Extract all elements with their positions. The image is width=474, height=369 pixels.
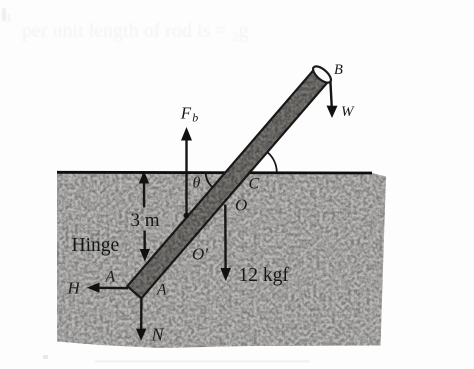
svg-text:B: B [334, 62, 343, 78]
rod end cap at B [310, 64, 333, 86]
3 m dimension arrows [139, 171, 150, 262]
weight W arrow at B [327, 82, 338, 119]
svg-text:H: H [67, 279, 82, 298]
hinge horizontal reaction H arrow [87, 283, 128, 293]
Fb application point dot [184, 213, 190, 219]
svg-text:b: b [192, 111, 198, 125]
svg-text:O: O [235, 196, 247, 215]
svg-text:A: A [105, 269, 116, 286]
angle arc at C [267, 152, 276, 172]
svg-text:N: N [151, 325, 165, 345]
water body (submerged region) [50, 165, 395, 355]
svg-text:C: C [249, 176, 260, 193]
rod AB [120, 60, 336, 305]
12 kgf load arrow [220, 205, 231, 282]
angle arc theta at water line [206, 172, 213, 187]
svg-text:W: W [341, 104, 355, 120]
svg-text:A: A [156, 282, 167, 299]
faint bleed-through text at top [2, 8, 249, 42]
water surface line [57, 171, 372, 174]
svg-text:12 kgf: 12 kgf [239, 265, 290, 286]
svg-text:Hinge: Hinge [72, 235, 120, 256]
svg-text:per unit length of rod is = ₂g: per unit length of rod is = ₂g [22, 20, 249, 42]
svg-text:F: F [180, 104, 192, 123]
faint page smudge bottom [95, 360, 310, 363]
svg-text:θ: θ [193, 175, 201, 192]
svg-text:O′: O′ [192, 245, 208, 264]
svg-text:3 m: 3 m [131, 210, 160, 231]
faint mark bottom left [43, 355, 48, 359]
buoyant force Fb arrow [181, 127, 192, 214]
hinge normal reaction N arrow [136, 299, 147, 341]
